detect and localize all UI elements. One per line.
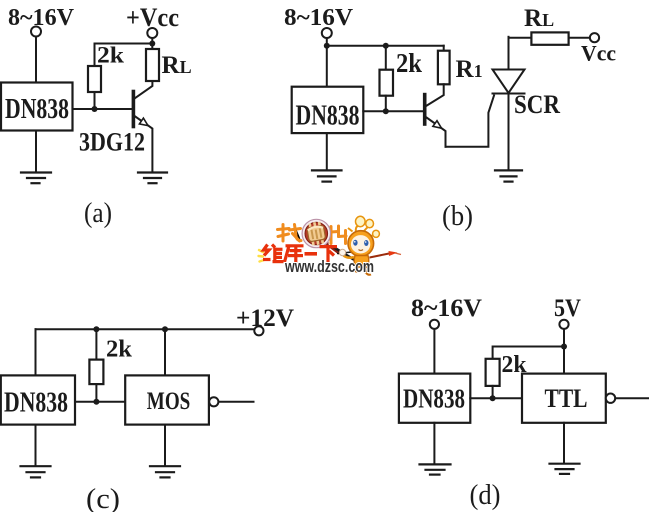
wire bbox=[164, 425, 166, 466]
svg-text:(a): (a) bbox=[84, 198, 112, 229]
wire bbox=[385, 96, 387, 112]
char 找 bbox=[278, 225, 302, 242]
mascot bulbs bbox=[356, 216, 366, 226]
char 一 bbox=[305, 252, 318, 256]
yellow accents bbox=[259, 250, 265, 262]
wire bbox=[493, 347, 564, 359]
node junction (c) 2 bbox=[162, 326, 168, 332]
terminal +Vcc (a) bbox=[147, 28, 157, 38]
magnifier glass lens bbox=[305, 222, 328, 245]
inverter bubble (c) bbox=[209, 397, 218, 406]
wire bbox=[36, 328, 255, 330]
wire base (a) bbox=[73, 108, 132, 110]
SCR thyristor bbox=[493, 37, 525, 170]
char 找 white outline bbox=[278, 225, 302, 242]
char 下 bbox=[320, 247, 338, 263]
ground (c) left bbox=[21, 466, 51, 477]
IC DN838 (a) bbox=[1, 83, 73, 131]
node junction (d) bbox=[561, 344, 567, 350]
wire bbox=[327, 45, 444, 47]
resistor R1 bbox=[438, 51, 450, 85]
wire gate path (b) bbox=[446, 96, 495, 147]
terminal 5V bbox=[559, 320, 568, 329]
wire bbox=[563, 423, 565, 463]
svg-text:DN838: DN838 bbox=[5, 94, 69, 125]
svg-text:8~16V: 8~16V bbox=[284, 5, 354, 31]
node junction (b) bbox=[324, 43, 330, 49]
wire bbox=[35, 425, 37, 466]
terminal 8~16V (b) bbox=[322, 28, 332, 38]
node junction (a) bbox=[149, 41, 155, 47]
char 片 white outline bbox=[331, 226, 346, 244]
wire bbox=[95, 329, 97, 359]
wire bbox=[509, 37, 532, 39]
wire bbox=[164, 329, 166, 375]
wire base (b) bbox=[363, 110, 423, 112]
wire bbox=[326, 38, 328, 86]
mascot head bbox=[348, 231, 374, 257]
terminal Vcc (b) bbox=[590, 33, 599, 42]
node junction (c) 1 bbox=[93, 326, 99, 332]
IC DN838 (c) bbox=[1, 375, 75, 424]
terminal 8~16V (a) bbox=[31, 27, 41, 37]
node junction (b) top bbox=[383, 43, 389, 49]
IC DN838 (d) bbox=[399, 374, 470, 423]
pen in hand bbox=[333, 247, 358, 262]
transistor 3DG12 Q1 bbox=[133, 81, 152, 172]
svg-text:8~16V: 8~16V bbox=[411, 295, 482, 322]
char 库 bbox=[285, 246, 304, 262]
wire bbox=[95, 384, 97, 402]
node junction (c) 3 bbox=[93, 399, 99, 405]
svg-text:DN838: DN838 bbox=[403, 384, 465, 414]
resistor 2k (c) bbox=[89, 360, 103, 385]
svg-text:Vcc: Vcc bbox=[581, 41, 616, 66]
wire bbox=[563, 329, 565, 374]
node junction (a) base bbox=[92, 106, 98, 112]
wire bbox=[94, 92, 96, 109]
svg-text:MOS: MOS bbox=[147, 388, 191, 415]
svg-text:SCR: SCR bbox=[514, 90, 560, 119]
resistor 2k (d) bbox=[486, 359, 500, 386]
svg-text:TTL: TTL bbox=[545, 384, 588, 413]
magnifier glass ring bbox=[302, 219, 330, 247]
mascot right arm wand bbox=[370, 254, 390, 258]
wire bbox=[615, 397, 648, 399]
ground (a) left bbox=[21, 173, 51, 184]
wire bbox=[470, 397, 522, 399]
mascot body bbox=[354, 256, 369, 268]
ground (a) right bbox=[138, 173, 167, 184]
magnifier handle bbox=[325, 242, 340, 253]
svg-text:2k: 2k bbox=[396, 48, 422, 78]
wire bbox=[95, 43, 153, 45]
svg-text:RL: RL bbox=[524, 5, 554, 32]
wire bbox=[433, 423, 435, 464]
mascot eyes bbox=[353, 240, 357, 246]
chip in lens bbox=[306, 221, 326, 247]
svg-text:www.dzsc.com: www.dzsc.com bbox=[284, 257, 374, 276]
svg-text:+12V: +12V bbox=[236, 305, 294, 332]
resistor RL (a) bbox=[146, 49, 159, 81]
svg-text:(b): (b) bbox=[442, 201, 473, 232]
resistor RL (b) bbox=[531, 32, 568, 44]
gate TTL bbox=[522, 374, 606, 423]
char 片 bbox=[331, 226, 346, 244]
terminal 8~16V (d) bbox=[430, 320, 439, 329]
char 维 bbox=[263, 245, 284, 263]
ground (d) left bbox=[420, 464, 451, 474]
svg-text:2k: 2k bbox=[106, 337, 133, 363]
svg-text:8~16V: 8~16V bbox=[8, 5, 75, 31]
mascot face bbox=[351, 235, 370, 253]
svg-text:(d): (d) bbox=[470, 480, 501, 511]
ground (d) TTL bbox=[550, 464, 580, 474]
svg-text:5V: 5V bbox=[554, 295, 581, 322]
wire bbox=[385, 46, 387, 70]
terminal +12V bbox=[254, 326, 263, 335]
ground (b) left bbox=[312, 170, 342, 181]
IC DN838 (b) bbox=[292, 87, 364, 133]
svg-text:(c): (c) bbox=[86, 484, 120, 512]
svg-text:DN838: DN838 bbox=[4, 388, 68, 419]
wire bbox=[219, 401, 254, 403]
mascot mouth bbox=[359, 250, 364, 251]
svg-text:2k: 2k bbox=[97, 43, 124, 68]
wire bbox=[151, 38, 153, 49]
inverter bubble (d) bbox=[606, 394, 615, 403]
wire bbox=[75, 401, 125, 403]
resistor 2k (b) bbox=[380, 70, 394, 96]
wire bbox=[433, 329, 435, 374]
svg-text:R1: R1 bbox=[456, 56, 483, 83]
gate MOS bbox=[125, 375, 209, 424]
node junction (d) base bbox=[490, 395, 496, 401]
wire bbox=[94, 44, 96, 67]
mascot left arm bbox=[344, 256, 355, 258]
wire bbox=[35, 37, 37, 83]
wand tip bbox=[389, 251, 398, 256]
svg-text:3DG12: 3DG12 bbox=[79, 128, 145, 157]
wire bbox=[35, 131, 37, 172]
svg-text:RL: RL bbox=[162, 52, 192, 79]
mascot legs bbox=[356, 268, 366, 274]
resistor 2k (a) bbox=[88, 66, 101, 92]
mascot antenna stalks bbox=[348, 226, 375, 237]
svg-text:DN838: DN838 bbox=[296, 101, 360, 132]
wire bbox=[443, 46, 445, 51]
node junction (b) base bbox=[383, 108, 389, 114]
mascot glove on pen bbox=[339, 249, 345, 255]
ground (c) MOS bbox=[150, 466, 180, 477]
wire bbox=[35, 329, 37, 375]
ground (b) SCR bbox=[495, 170, 522, 181]
wire bbox=[326, 133, 328, 169]
transistor (b) Q2 bbox=[425, 84, 446, 146]
wire bbox=[492, 386, 494, 398]
wire bbox=[569, 37, 590, 39]
